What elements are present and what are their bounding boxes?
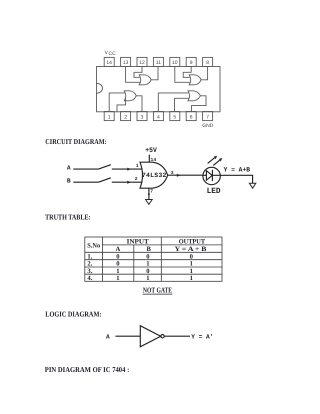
row line header1	[102, 244, 222, 246]
svg-text:PIN DIAGRAM OF IC 7404 :: PIN DIAGRAM OF IC 7404 :	[45, 365, 130, 374]
wire A to inverter	[115, 335, 140, 337]
ground symbol under gate	[146, 200, 153, 205]
svg-text:TRUTH TABLE:: TRUTH TABLE:	[45, 213, 91, 222]
col line A/B	[133, 245, 135, 281]
pin 6 box	[186, 112, 196, 121]
wire G3 out to pin3	[136, 96, 142, 112]
gate G3 bottom-left OR	[124, 91, 136, 101]
wire G4 out to pin6	[192, 96, 207, 112]
arrowhead wire B	[127, 181, 131, 184]
inverter U2 triangle	[140, 326, 160, 347]
wire pin4 to G4	[158, 93, 188, 112]
svg-text:2: 2	[135, 176, 138, 182]
svg-text:1: 1	[190, 275, 193, 282]
svg-text:Y = A+B: Y = A+B	[224, 166, 250, 173]
svg-text:2: 2	[124, 115, 127, 121]
svg-text:B: B	[146, 246, 151, 253]
svg-text:OUTPUT: OUTPUT	[179, 238, 206, 245]
svg-text:13: 13	[123, 60, 129, 66]
svg-text:14: 14	[151, 157, 157, 163]
row line header2	[85, 251, 222, 253]
svg-text:Y = A + B: Y = A + B	[175, 246, 207, 253]
svg-text:1: 1	[116, 275, 119, 282]
wire pin12 to G1	[134, 67, 142, 78]
wire A first segment	[73, 168, 98, 170]
table outer border	[85, 237, 222, 281]
svg-text:Y = A': Y = A'	[191, 334, 213, 341]
row line r3	[85, 273, 222, 275]
svg-text:1.: 1.	[87, 253, 92, 260]
svg-text:CC: CC	[109, 51, 117, 57]
notch	[97, 83, 103, 93]
LED light arrow 2	[213, 160, 220, 166]
pin 4 box	[153, 112, 163, 121]
LED light arrow 1	[208, 158, 215, 164]
switch SW-B blade	[99, 178, 111, 182]
wire gate output to LED	[168, 174, 203, 176]
svg-text:S.No: S.No	[87, 242, 100, 249]
svg-text:1: 1	[108, 115, 111, 121]
svg-text:9: 9	[190, 60, 193, 66]
arrowhead wire A	[127, 168, 131, 171]
svg-text:10: 10	[172, 60, 178, 66]
svg-text:INPUT: INPUT	[127, 238, 150, 245]
svg-text:74LS32: 74LS32	[142, 172, 167, 179]
arrowhead gate output wire	[177, 174, 181, 177]
svg-text:5: 5	[173, 115, 176, 121]
wire pin7 to ground	[148, 188, 150, 199]
svg-text:12: 12	[139, 60, 145, 66]
arrowhead LED arrow 1	[214, 156, 218, 159]
junction dot on pin7 wire	[148, 193, 150, 195]
pin 8 box	[203, 57, 213, 66]
op gate U1 74LS32 OR	[140, 162, 168, 188]
pin 5 box	[170, 112, 180, 121]
wire pin2 to G3	[117, 99, 126, 112]
wire LED to right ground	[220, 175, 252, 183]
pin 10 box	[170, 57, 180, 66]
svg-text:LOGIC DIAGRAM:: LOGIC DIAGRAM:	[45, 310, 101, 319]
LED diode triangle	[206, 171, 212, 181]
wire pin13 to G1	[126, 67, 140, 83]
underline of NOT GATE	[143, 293, 173, 295]
svg-text:14: 14	[106, 60, 112, 66]
pin 12 box	[137, 57, 147, 66]
svg-text:7: 7	[206, 115, 209, 121]
svg-text:6: 6	[190, 115, 193, 121]
wire G2 out to pin8	[201, 67, 207, 80]
svg-text:GND: GND	[202, 123, 214, 129]
svg-text:1: 1	[146, 261, 149, 268]
svg-text:4: 4	[157, 115, 160, 121]
svg-text:A: A	[106, 334, 110, 341]
svg-text:8: 8	[206, 60, 209, 66]
ground symbol right	[249, 183, 255, 188]
svg-text:1: 1	[136, 163, 139, 169]
svg-text:11: 11	[156, 60, 161, 66]
svg-text:4.: 4.	[87, 275, 92, 282]
svg-text:7: 7	[150, 189, 153, 195]
pin 14 box	[104, 57, 114, 66]
svg-text:+5V: +5V	[145, 147, 157, 155]
svg-text:A: A	[67, 164, 71, 171]
svg-text:1: 1	[146, 275, 149, 282]
pin 1 box	[104, 112, 114, 121]
LED D1 body	[203, 167, 220, 184]
arrowhead LED arrow 2	[219, 158, 223, 161]
wire pin5 to G4	[175, 98, 189, 111]
gate G1 top-left OR	[139, 75, 151, 85]
svg-text:2.: 2.	[87, 261, 92, 268]
col line B/OUTPUT	[160, 237, 162, 281]
switch SW-A blade	[99, 165, 111, 169]
svg-text:LED: LED	[207, 187, 221, 196]
wire pin1 to G3	[109, 93, 125, 112]
pin 9 box	[186, 57, 196, 66]
row line r2	[85, 266, 222, 268]
svg-text:1: 1	[190, 261, 193, 268]
gate G4 bottom-right OR	[188, 91, 201, 101]
wire B first segment	[73, 181, 98, 183]
svg-text:CIRCUIT DIAGRAM:: CIRCUIT DIAGRAM:	[45, 137, 106, 146]
wire pin9 to G2	[183, 67, 191, 78]
svg-text:1: 1	[190, 268, 193, 275]
svg-text:1: 1	[116, 268, 119, 275]
wire B second segment to gate pin2	[112, 181, 143, 183]
svg-text:3.: 3.	[87, 268, 92, 275]
gate G2 top-right OR	[189, 75, 201, 85]
svg-text:B: B	[67, 177, 71, 184]
node +5V supply line to pin 14	[148, 156, 150, 163]
wire pin10 to G2	[175, 67, 190, 83]
col line S.No	[101, 237, 103, 281]
pin 11 box	[153, 57, 163, 66]
wire G1 out to pin11	[151, 67, 158, 80]
svg-text:3: 3	[141, 115, 144, 121]
inverter bubble	[161, 335, 164, 338]
pin 7 box	[203, 112, 213, 121]
svg-text:A: A	[116, 246, 121, 253]
LED internal wire	[203, 174, 220, 176]
IC body U1	[97, 67, 221, 112]
pin 3 box	[137, 112, 147, 121]
svg-text:NOT GATE: NOT GATE	[143, 286, 172, 295]
row line r1	[85, 259, 222, 261]
LED cathode bar	[211, 170, 213, 181]
supply tick top	[148, 154, 150, 156]
pin 2 box	[121, 112, 131, 121]
wire inverter to output label	[164, 335, 190, 337]
pin 13 box	[121, 57, 131, 66]
wire A second segment to gate pin1	[112, 168, 143, 170]
svg-text:3: 3	[171, 170, 174, 176]
